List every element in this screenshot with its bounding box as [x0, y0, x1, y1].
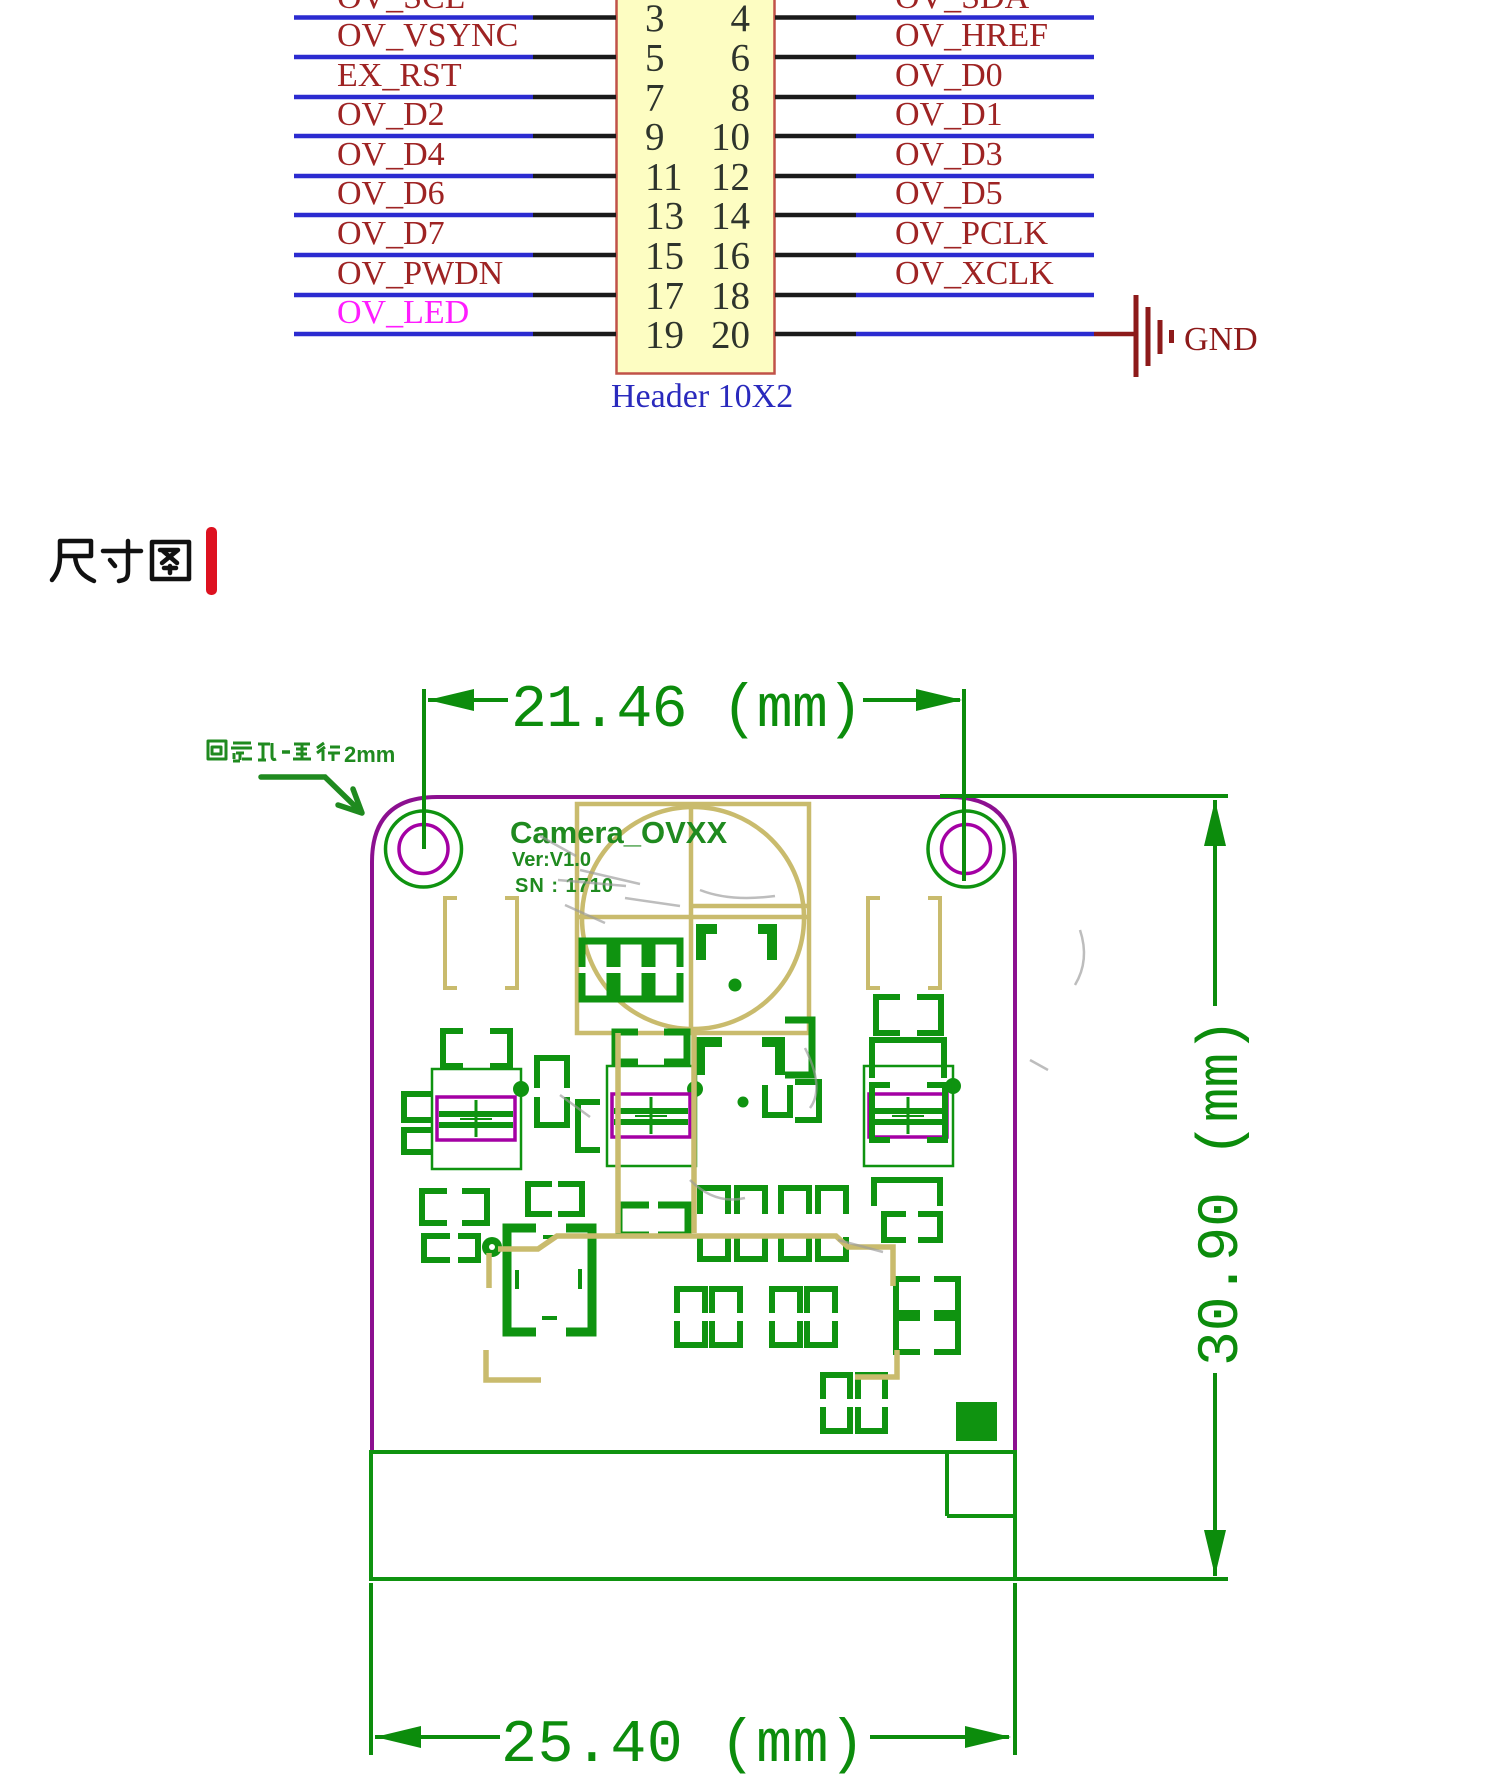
svg-text:Ver:V1.0: Ver:V1.0: [512, 849, 591, 871]
crystal Y3: [864, 1066, 953, 1166]
dimension 25.40 (mm) bottom: [371, 1583, 1015, 1780]
pad cluster right upper: [874, 1180, 940, 1240]
wire pin 10 (right): [775, 134, 1094, 139]
fiducial corner marks inside lens: [700, 929, 780, 1075]
svg-text:OV_D7: OV_D7: [337, 215, 445, 252]
wire pin 5 (left, OV_VSYNC): [294, 55, 616, 60]
via with annular ring: [482, 1237, 502, 1257]
svg-text:18: 18: [711, 275, 750, 318]
wire pin 16 (right): [775, 253, 1094, 258]
pad array center bottom: [700, 1188, 846, 1259]
svg-text:21.46 (mm): 21.46 (mm): [511, 677, 863, 745]
svg-text:OV_D1: OV_D1: [895, 96, 1003, 133]
pad group bottom: [823, 1375, 885, 1431]
svg-text:5: 5: [645, 37, 665, 80]
red marker bar: [206, 527, 217, 595]
svg-text:17: 17: [645, 275, 684, 318]
dimension 30.90 (mm) right: [1015, 800, 1255, 1579]
polarity mark (solid square): [956, 1402, 997, 1441]
wire pin 17 (left, OV_PWDN): [294, 293, 616, 298]
wire pin 12 (right): [775, 174, 1094, 179]
wire pin 9 (left, OV_D2): [294, 134, 616, 139]
pad cluster right middle: [896, 1279, 958, 1352]
svg-text:20: 20: [711, 314, 750, 357]
annotation arrow to mounting hole: [261, 777, 362, 813]
mounting hole right: [928, 811, 1004, 887]
svg-text:3: 3: [645, 0, 665, 40]
pads around crystals: [404, 1020, 819, 1152]
khaki silk brackets left: [445, 898, 517, 988]
crystal Y2: [607, 1066, 696, 1166]
svg-text:OV_D2: OV_D2: [337, 96, 445, 133]
svg-text:OV_D5: OV_D5: [895, 175, 1003, 212]
svg-text:10: 10: [711, 116, 750, 159]
annotation 固定孔-直径2mm: [208, 741, 395, 767]
crystal Y1: [432, 1069, 521, 1169]
mounting hole left: [386, 811, 462, 887]
wire pin 18 (right): [775, 293, 1094, 298]
pads lower-left rows: [422, 1184, 688, 1260]
silkscreen text Camera_OVXX: [510, 815, 727, 897]
svg-text:OV_D4: OV_D4: [337, 136, 445, 173]
scan artifacts (faint): [540, 836, 1084, 1252]
wire pin 13 (left, OV_D6): [294, 213, 616, 218]
wire pin 11 (left, OV_D4): [294, 174, 616, 179]
svg-text:8: 8: [731, 77, 751, 120]
svg-text:9: 9: [645, 116, 665, 159]
connector J2 (bottom): [371, 1452, 1015, 1579]
section title 尺寸图 (dimension diagram): [52, 541, 189, 581]
wire to ground: [1094, 332, 1134, 337]
wire pin 3 (left, OV_SCL): [294, 15, 616, 20]
svg-text:OV_D0: OV_D0: [895, 57, 1003, 94]
khaki traces: [486, 1033, 897, 1380]
svg-text:16: 16: [711, 235, 750, 278]
svg-text:OV_D6: OV_D6: [337, 175, 445, 212]
svg-text:4: 4: [731, 0, 751, 40]
wire pin 6 (right): [775, 55, 1094, 60]
svg-text:15: 15: [645, 235, 684, 278]
wire pin 20 (right): [775, 332, 1094, 337]
svg-text:11: 11: [645, 156, 683, 199]
svg-text:12: 12: [711, 156, 750, 199]
svg-text:GND: GND: [1184, 321, 1258, 358]
wire pin 19 (left, OV_LED): [294, 332, 616, 337]
svg-text:OV_VSYNC: OV_VSYNC: [337, 17, 518, 54]
lens holder outline (khaki): [577, 804, 809, 1033]
svg-text:OV_D3: OV_D3: [895, 136, 1003, 173]
svg-text:OV_SDA: OV_SDA: [895, 0, 1030, 16]
pad group square pads: [677, 1289, 835, 1345]
svg-text:19: 19: [645, 314, 684, 357]
svg-text:Header 10X2: Header 10X2: [611, 378, 793, 415]
pads right column: [872, 997, 945, 1140]
wire pin 14 (right): [775, 213, 1094, 218]
svg-text:OV_LED: OV_LED: [337, 294, 469, 331]
wire pin 7 (left, EX_RST): [294, 95, 616, 100]
svg-text:13: 13: [645, 195, 684, 238]
ground symbol GND: [1136, 295, 1172, 377]
component U3 (thick outline, bottom left): [507, 1228, 592, 1332]
svg-text:OV_SCL: OV_SCL: [337, 0, 465, 16]
svg-text:30.90 (mm): 30.90 (mm): [1190, 1018, 1255, 1366]
svg-text:2mm: 2mm: [344, 742, 395, 767]
svg-text:7: 7: [645, 77, 665, 120]
svg-text:OV_HREF: OV_HREF: [895, 17, 1048, 54]
svg-text:14: 14: [711, 195, 750, 238]
wire pin 15 (left, OV_D7): [294, 253, 616, 258]
svg-text:25.40 (mm): 25.40 (mm): [501, 1712, 865, 1780]
wire pin 4 (right): [775, 15, 1094, 20]
wire pin 8 (right): [775, 95, 1094, 100]
dimension 21.46 (mm) top: [424, 677, 1228, 881]
khaki silk brackets right: [868, 898, 940, 988]
svg-text:EX_RST: EX_RST: [337, 57, 462, 94]
svg-text:OV_PWDN: OV_PWDN: [337, 255, 503, 292]
test point dots: [513, 979, 961, 1108]
svg-text:6: 6: [731, 37, 751, 80]
header J1 (Header 10X2): [617, 0, 775, 374]
IC pads U2 (under lens): [582, 941, 680, 999]
svg-text:Camera_OVXX: Camera_OVXX: [510, 815, 727, 850]
svg-text:SN : 1710: SN : 1710: [515, 875, 614, 897]
svg-text:OV_XCLK: OV_XCLK: [895, 255, 1054, 292]
svg-text:OV_PCLK: OV_PCLK: [895, 215, 1048, 252]
PCB board outline: [372, 797, 1015, 1452]
